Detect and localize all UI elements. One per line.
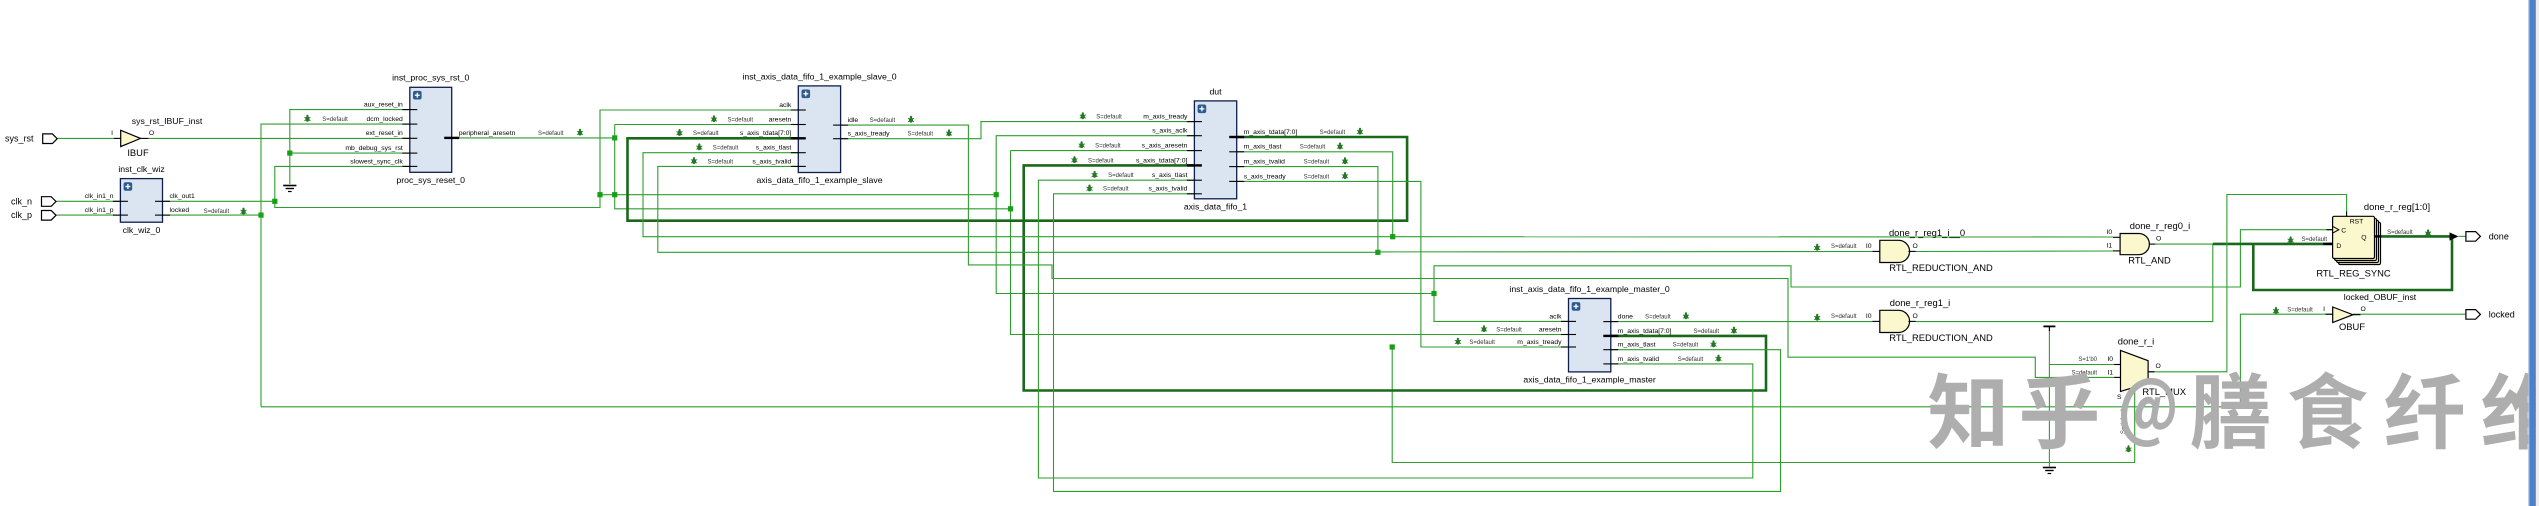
wire m_axis_tlast dut to slave	[643, 152, 1393, 237]
reg pin RST	[2347, 212, 2364, 226]
attr marker mux select	[2121, 408, 2132, 452]
svg-text:s_axis_tready: s_axis_tready	[1244, 173, 1287, 180]
svg-text:O: O	[1913, 243, 1918, 250]
wire aresetn drop to master	[1011, 151, 1569, 335]
attr marker slave aresetn	[711, 115, 753, 123]
svg-text:s_axis_aclk: s_axis_aclk	[1152, 128, 1188, 135]
svg-text:RTL_AND: RTL_AND	[2128, 255, 2171, 266]
bus D input of reg	[2213, 243, 2333, 246]
wire m_axis_tvalid master to dut tlast	[1038, 180, 1752, 478]
svg-text:m_axis_tdata[7:0]: m_axis_tdata[7:0]	[1618, 328, 1672, 335]
output port arrow done	[2450, 232, 2466, 240]
clk_wiz label	[123, 225, 161, 235]
attr marker master tready	[1455, 338, 1495, 346]
output port locked	[2466, 309, 2515, 319]
OBUF pin I	[2323, 306, 2325, 313]
svg-text:aresetn: aresetn	[1539, 326, 1562, 333]
master pin done	[1603, 314, 1633, 322]
junction clk D	[1431, 291, 1436, 296]
clk_wiz pin clk_in1_n	[85, 193, 128, 201]
gate1 pin O	[1913, 243, 1918, 250]
svg-text:s_axis_tvalid: s_axis_tvalid	[752, 158, 791, 165]
junction tvalid	[1375, 250, 1380, 255]
wire tlast branch to RTL_AND I0	[1393, 236, 2113, 238]
attr marker peripheral_aresetn	[538, 129, 583, 137]
svg-text:Q: Q	[2361, 235, 2366, 242]
wire gnd to mux I0	[2049, 364, 2114, 366]
OBUF label	[2339, 321, 2365, 332]
svg-text:IBUF: IBUF	[127, 147, 149, 158]
svg-text:S=default: S=default	[1088, 158, 1114, 164]
register done_r_reg RTL_REG_SYNC	[2333, 216, 2381, 264]
OBUF title	[2344, 292, 2417, 302]
bus m_axis_tdata dut to slave	[628, 137, 1408, 221]
wire clk to slowest_sync_clk	[275, 110, 799, 208]
RTL_AND pin O	[2156, 236, 2161, 243]
mux sel value	[2078, 357, 2097, 363]
wire IBUF out to ext_reset_in	[148, 137, 409, 139]
svg-text:m_axis_tready: m_axis_tready	[1517, 339, 1562, 346]
input port clk_p	[11, 210, 56, 220]
svg-text:S=default: S=default	[1469, 340, 1495, 346]
svg-text:axis_data_fifo_1: axis_data_fifo_1	[1184, 202, 1247, 212]
fifo block U4 axis_data_fifo_1 dut	[1194, 101, 1236, 199]
attr marker slave tready	[908, 129, 953, 137]
svg-text:aux_reset_in: aux_reset_in	[364, 102, 403, 109]
wire peripheral_aresetn trunk	[452, 137, 615, 139]
master pin aresetn	[1539, 326, 1576, 334]
svg-text:S=default: S=default	[1300, 145, 1326, 151]
wire aux_reset_in to ground	[290, 110, 410, 184]
input port sys_rst	[5, 134, 57, 144]
attr marker reg Q	[2387, 229, 2431, 236]
dut pin s_axis_tready	[1229, 173, 1286, 181]
svg-text:inst_proc_sys_rst_0: inst_proc_sys_rst_0	[392, 73, 469, 83]
svg-text:S=1'b0: S=1'b0	[2078, 357, 2097, 363]
svg-text:I: I	[2323, 306, 2325, 313]
slave pin s_axis_tready	[833, 131, 890, 139]
svg-text:s_axis_tready: s_axis_tready	[848, 131, 891, 138]
svg-text:done: done	[2489, 231, 2509, 241]
svg-text:aresetn: aresetn	[769, 116, 792, 123]
dut pin s_axis_aclk	[1152, 128, 1202, 136]
gate2 title	[1890, 297, 1950, 308]
svg-text:m_axis_tvalid: m_axis_tvalid	[1244, 159, 1285, 166]
gate1 title	[1889, 227, 1965, 238]
svg-text:S=default: S=default	[727, 117, 753, 123]
mux done_r_i RTL_MUX	[2114, 350, 2154, 391]
RTL_AND title	[2130, 220, 2190, 231]
svg-text:S=default: S=default	[1678, 357, 1704, 363]
svg-text:I: I	[111, 130, 113, 137]
svg-text:O: O	[2156, 236, 2161, 243]
IBUF pin O	[149, 130, 154, 137]
wire aresetn to slave	[615, 125, 1011, 209]
wire s_axis_tready slave to dut	[841, 122, 1195, 139]
proc pin slowest_sync_clk	[350, 158, 417, 166]
and-gate done_r_reg1_i	[1880, 310, 1910, 332]
attr marker reg D	[2288, 236, 2328, 243]
ground symbol G2	[2043, 468, 2056, 474]
svg-text:m_axis_tlast: m_axis_tlast	[1618, 342, 1656, 349]
slave pin idle	[833, 117, 858, 125]
svg-text:S=default: S=default	[1496, 327, 1522, 333]
junction select	[1390, 344, 1395, 349]
wire s_axis_tready dut to master	[1237, 181, 1569, 347]
gate2 label	[1889, 332, 1993, 343]
attr marker master mtvalid	[1678, 355, 1722, 363]
svg-text:I0: I0	[1866, 243, 1872, 250]
dut pin s_axis_tlast	[1152, 172, 1202, 180]
svg-text:O: O	[2156, 363, 2161, 370]
junction clk A	[272, 199, 277, 204]
master title	[1509, 284, 1670, 294]
mux pin I1	[2107, 370, 2113, 377]
junction clk B	[597, 192, 602, 197]
svg-text:clk_n: clk_n	[11, 196, 32, 206]
gnd bar symbol	[2043, 326, 2055, 331]
svg-text:inst_axis_data_fifo_1_example_: inst_axis_data_fifo_1_example_slave_0	[742, 72, 896, 82]
svg-text:S=default: S=default	[713, 146, 739, 152]
svg-text:s_axis_tlast: s_axis_tlast	[756, 145, 792, 152]
attr marker OBUF	[2273, 307, 2313, 314]
svg-text:dcm_locked: dcm_locked	[367, 116, 403, 123]
svg-text:done_r_reg1_i: done_r_reg1_i	[1890, 297, 1950, 308]
master pin m_axis_tvalid	[1603, 356, 1659, 364]
svg-text:O: O	[2361, 306, 2366, 313]
wire gate1 O to RTL_AND I1	[1916, 250, 2113, 253]
svg-text:done_r_reg[1:0]: done_r_reg[1:0]	[2364, 201, 2430, 212]
svg-text:dut: dut	[1209, 87, 1222, 97]
clock block U1 clk_wiz	[120, 179, 162, 223]
master pin m_axis_tlast	[1603, 342, 1655, 350]
wire clk branch to dut aclk	[600, 136, 1194, 195]
svg-text:I0: I0	[2107, 356, 2113, 363]
slave pin s_axis_tlast	[756, 145, 806, 153]
svg-text:S=default: S=default	[1304, 160, 1330, 166]
svg-text:I0: I0	[1866, 313, 1872, 320]
reset block U2 proc_sys_reset	[410, 87, 452, 172]
mux default value	[2071, 371, 2097, 377]
svg-text:locked: locked	[2489, 309, 2515, 319]
svg-text:idle: idle	[848, 117, 859, 124]
svg-text:sys_rst_IBUF_inst: sys_rst_IBUF_inst	[132, 116, 203, 126]
svg-text:axis_data_fifo_1_example_slave: axis_data_fifo_1_example_slave	[756, 175, 882, 185]
svg-text:mb_debug_sys_rst: mb_debug_sys_rst	[345, 145, 403, 152]
reg pin C	[2327, 227, 2347, 235]
svg-text:S=default: S=default	[908, 132, 934, 138]
svg-text:clk_in1_p: clk_in1_p	[85, 207, 114, 214]
RTL_AND pin I1	[2107, 243, 2113, 250]
junction aresetn B	[612, 192, 617, 197]
svg-text:inst_clk_wiz: inst_clk_wiz	[118, 164, 164, 174]
slave pin aclk	[779, 102, 806, 110]
svg-text:done: done	[1618, 314, 1633, 321]
attr marker master aresetn	[1481, 325, 1522, 333]
attr marker dut tvalid	[1087, 185, 1129, 193]
svg-text:S=default: S=default	[1095, 144, 1121, 150]
wire clk_out1 net segment	[163, 200, 275, 202]
svg-text:S=default: S=default	[1673, 343, 1699, 349]
wire locked long run to OBUF	[261, 314, 2333, 407]
svg-text:S=default: S=default	[707, 159, 733, 165]
svg-text:S=default: S=default	[1645, 315, 1671, 321]
attr marker master done	[1645, 312, 1689, 320]
svg-text:OBUF: OBUF	[2339, 321, 2365, 332]
scrollbar	[2528, 0, 2539, 506]
dut pin m_axis_tvalid	[1229, 159, 1285, 167]
svg-text:I1: I1	[2107, 370, 2113, 377]
dut title	[1209, 87, 1222, 97]
svg-text:ext_reset_in: ext_reset_in	[366, 130, 403, 137]
output port done	[2466, 231, 2509, 241]
svg-text:O: O	[1913, 313, 1918, 320]
attr marker dut aresetn	[1079, 141, 1121, 149]
svg-text:slowest_sync_clk: slowest_sync_clk	[350, 158, 403, 165]
svg-text:S=default: S=default	[1320, 130, 1346, 136]
svg-text:RTL_REDUCTION_AND: RTL_REDUCTION_AND	[1889, 262, 1993, 273]
proc pin ext_reset_in	[366, 130, 418, 138]
junction tlast	[1390, 234, 1395, 239]
wire OBUF out to locked port	[2353, 313, 2466, 315]
RTL_AND pin I0	[2107, 229, 2113, 236]
junction aresetn A	[612, 135, 617, 140]
slave title	[742, 72, 896, 82]
buffer IBUF sys_rst_IBUF_inst	[114, 130, 149, 146]
clk_wiz pin locked	[155, 207, 189, 215]
wire sys_rst port to IBUF	[55, 137, 114, 139]
svg-text:clk_in1_n: clk_in1_n	[85, 193, 114, 200]
wire tvalid branch to gate1 I0	[1378, 251, 1872, 253]
svg-text:S=default: S=default	[1103, 187, 1129, 193]
ground symbol G1	[283, 186, 296, 192]
svg-text:S=default: S=default	[870, 118, 896, 124]
svg-text:proc_sys_reset_0: proc_sys_reset_0	[396, 175, 465, 185]
buffer OBUF locked_OBUF_inst	[2326, 307, 2361, 323]
wire mb_debug_sys_rst to ground	[290, 152, 410, 154]
proc pin peripheral_aresetn	[444, 130, 515, 138]
bus done_r Q to done port	[2382, 235, 2452, 238]
mux title	[2118, 336, 2155, 347]
gate1 pin I0	[1866, 243, 1872, 250]
attr marker dcm_locked	[304, 115, 348, 123]
slave label	[756, 175, 882, 185]
svg-text:sys_rst: sys_rst	[5, 134, 34, 144]
gate2 pin I0	[1866, 313, 1872, 320]
wire idle net to mux I1	[841, 125, 2115, 377]
wire locked from clk_wiz	[163, 214, 262, 216]
attr marker dut mtvalid	[1304, 157, 1348, 165]
svg-text:S=default: S=default	[1831, 314, 1857, 320]
bus done_r feedback loop	[2253, 236, 2452, 290]
svg-text:s_axis_tlast: s_axis_tlast	[1152, 172, 1188, 179]
svg-text:C: C	[2341, 228, 2346, 235]
svg-text:RTL_REDUCTION_AND: RTL_REDUCTION_AND	[1889, 332, 1993, 343]
attr marker slave tvalid	[691, 157, 733, 165]
reg pin D	[2323, 243, 2341, 250]
dut pin s_axis_tvalid	[1148, 186, 1201, 194]
bus m_axis_tdata master to dut	[1024, 165, 1766, 390]
attr marker dut mtlast	[1300, 143, 1343, 151]
proc pin mb_debug_sys_rst	[345, 145, 417, 153]
svg-text:peripheral_aresetn: peripheral_aresetn	[459, 130, 516, 137]
and stubs	[2113, 237, 2155, 251]
gate2 pin O	[1913, 313, 1918, 320]
dut pin s_axis_tdata	[1136, 157, 1202, 165]
slave pin s_axis_tdata	[740, 130, 806, 138]
master pin aclk	[1549, 313, 1576, 321]
input port clk_n	[11, 196, 56, 206]
svg-text:RST: RST	[2350, 218, 2364, 225]
svg-text:S=default: S=default	[204, 209, 230, 215]
svg-text:s_axis_tdata[7:0]: s_axis_tdata[7:0]	[1136, 157, 1187, 164]
master pin m_axis_tdata	[1603, 328, 1671, 336]
proc pin dcm_locked	[367, 116, 418, 124]
svg-text:S=default: S=default	[1694, 329, 1720, 335]
wire mux O to RST	[2148, 195, 2347, 372]
IBUF label	[127, 147, 149, 158]
proc pin aux_reset_in	[364, 102, 417, 110]
slave pin s_axis_tvalid	[752, 158, 805, 166]
junction clk C	[994, 192, 999, 197]
svg-text:done_r_i: done_r_i	[2118, 336, 2155, 347]
wire select branch to mux S	[1392, 347, 2135, 463]
gate1 stubs	[1872, 250, 1916, 252]
svg-text:S=default: S=default	[693, 131, 719, 137]
clk_wiz pin clk_out1	[155, 193, 195, 201]
master pin m_axis_tready	[1517, 339, 1576, 347]
svg-text:m_axis_tlast: m_axis_tlast	[1244, 144, 1282, 151]
svg-text:clk_p: clk_p	[11, 210, 32, 220]
IBUF title	[132, 116, 203, 126]
gate2 stubs	[1872, 320, 1916, 322]
svg-text:s_axis_tdata[7:0]: s_axis_tdata[7:0]	[740, 130, 791, 137]
reg pin Q	[2361, 235, 2381, 242]
OBUF pin O	[2361, 306, 2366, 313]
slave pin aresetn	[769, 116, 806, 124]
attr marker locked	[204, 208, 247, 215]
attr marker master mtdata	[1694, 327, 1738, 335]
wire clk tap to master aclk	[1434, 294, 1569, 322]
wire gnd vertical	[2048, 331, 2050, 467]
svg-text:locked: locked	[170, 207, 190, 214]
wire done master to gate2	[1611, 321, 1873, 323]
mux label	[2142, 386, 2186, 397]
attr marker slave tdata	[677, 129, 719, 137]
watermark zhihu	[1929, 371, 2539, 449]
svg-text:clk_out1: clk_out1	[170, 193, 196, 200]
proc label	[396, 175, 465, 185]
svg-text:S=default: S=default	[1108, 173, 1134, 179]
svg-text:aclk: aclk	[1549, 313, 1562, 320]
svg-text:S=default: S=default	[322, 117, 348, 123]
and-gate done_r_reg0_i RTL_AND	[2120, 234, 2149, 255]
fifo block U5 axis_data_fifo_1_example_master	[1569, 299, 1611, 372]
svg-text:S=default: S=default	[2387, 230, 2413, 236]
svg-text:S=default: S=default	[2301, 237, 2327, 243]
mux pin S	[2117, 394, 2122, 401]
wire m_axis_tlast master to dut tvalid	[1054, 194, 1781, 492]
svg-text:s_axis_aresetn: s_axis_aresetn	[1142, 143, 1188, 150]
wire RTL_AND O	[2155, 243, 2212, 245]
attr marker idle	[870, 116, 914, 124]
wire clk_p to clk_wiz	[56, 214, 120, 216]
master label	[1523, 375, 1655, 385]
svg-text:S=default: S=default	[538, 131, 564, 137]
svg-text:O: O	[149, 130, 154, 137]
clk_wiz pin clk_in1_p	[85, 207, 128, 215]
attr marker master mtlast	[1673, 340, 1717, 348]
attr marker dut mtdata	[1320, 128, 1363, 136]
wire clk trunk to reg C	[996, 195, 2332, 294]
RTL_AND label	[2128, 255, 2171, 266]
svg-text:S=default: S=default	[1304, 174, 1330, 180]
junction aresetn C	[1008, 206, 1013, 211]
wire locked to dcm_locked	[261, 124, 410, 407]
svg-text:I0: I0	[2107, 229, 2113, 236]
wire aresetn slave stub	[615, 124, 799, 126]
attr marker dut tlast	[1092, 171, 1134, 179]
svg-text:done_r_reg0_i: done_r_reg0_i	[2130, 220, 2190, 231]
svg-text:axis_data_fifo_1_example_maste: axis_data_fifo_1_example_master	[1523, 375, 1655, 385]
gate1 label	[1889, 262, 1993, 273]
dut pin m_axis_tlast	[1229, 144, 1281, 152]
dut pin s_axis_aresetn	[1142, 143, 1202, 151]
svg-text:S=default: S=default	[1831, 244, 1857, 250]
dut pin m_axis_tdata	[1229, 129, 1297, 137]
svg-text:inst_axis_data_fifo_1_example_: inst_axis_data_fifo_1_example_master_0	[1509, 284, 1670, 294]
attr marker gate1	[1814, 244, 1857, 251]
svg-text:S: S	[2117, 394, 2122, 401]
svg-text:S=default: S=default	[2287, 307, 2313, 313]
dut pin m_axis_tready	[1143, 114, 1202, 122]
IBUF pin I	[111, 130, 113, 137]
svg-text:I1: I1	[2107, 243, 2113, 250]
svg-text:locked_OBUF_inst: locked_OBUF_inst	[2344, 292, 2417, 302]
and-gate done_r_reg1_i__0	[1880, 240, 1910, 262]
attr marker dut tdata	[1072, 156, 1114, 164]
junction locked	[258, 213, 263, 218]
attr marker dut stready	[1304, 172, 1348, 180]
mux pin I0	[2107, 356, 2113, 363]
reg label	[2316, 267, 2391, 278]
svg-text:s_axis_tvalid: s_axis_tvalid	[1148, 186, 1187, 193]
svg-text:D: D	[2336, 243, 2341, 250]
attr marker gate2	[1814, 314, 1857, 321]
wire m_axis_tvalid dut to slave	[658, 166, 1378, 252]
proc title	[392, 73, 469, 83]
svg-text:S=default: S=default	[1096, 115, 1122, 121]
dut label	[1184, 202, 1247, 212]
wire clk_n to clk_wiz	[56, 200, 120, 202]
attr marker dut mtready	[1080, 112, 1122, 120]
svg-text:m_axis_tready: m_axis_tready	[1143, 114, 1188, 121]
junction ground net	[287, 151, 292, 156]
svg-text:m_axis_tdata[7:0]: m_axis_tdata[7:0]	[1244, 129, 1298, 136]
svg-text:m_axis_tvalid: m_axis_tvalid	[1618, 356, 1659, 363]
reg title	[2364, 201, 2430, 212]
mux pin O	[2156, 363, 2161, 370]
svg-text:done_r_reg1_i__0: done_r_reg1_i__0	[1889, 227, 1965, 238]
fifo block U3 axis_data_fifo_1_example_slave	[798, 86, 840, 173]
clk_wiz title	[118, 164, 164, 174]
wire aresetn to dut	[1011, 150, 1195, 152]
svg-text:clk_wiz_0: clk_wiz_0	[123, 225, 161, 235]
svg-text:RTL_REG_SYNC: RTL_REG_SYNC	[2316, 267, 2391, 278]
wire gate2 O to D bundle	[1916, 244, 2213, 322]
attr marker slave tlast	[696, 143, 738, 151]
svg-text:aclk: aclk	[779, 102, 792, 109]
